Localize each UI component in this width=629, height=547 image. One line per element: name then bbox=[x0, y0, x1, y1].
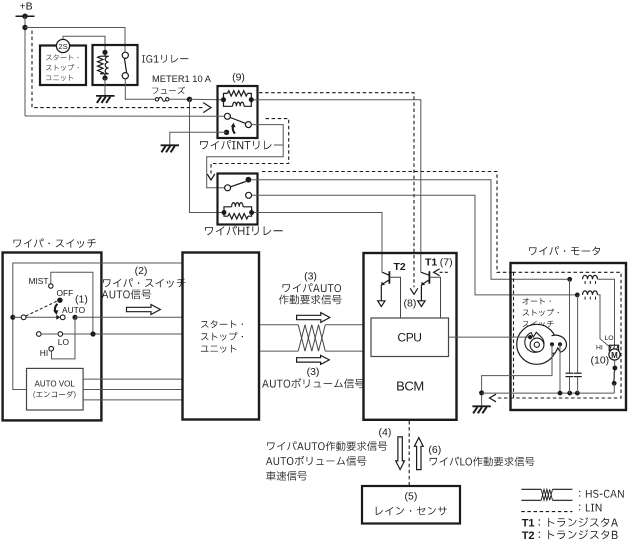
wire +B vertical feed bbox=[24, 16, 26, 116]
motor M body bbox=[609, 349, 620, 360]
relay IG1 coil connects bbox=[104, 52, 106, 56]
relay IG1 box bbox=[93, 45, 138, 85]
switch lever arrow bbox=[55, 304, 57, 312]
start-stop unit (upper) box bbox=[40, 46, 86, 86]
relay INT NC terminal bbox=[224, 130, 229, 135]
svg-text:T1: T1 bbox=[425, 257, 437, 269]
wire 2S to IG1 coil bbox=[63, 36, 105, 50]
wire LO coil to motor bbox=[598, 279, 615, 345]
start-stop unit box bbox=[183, 253, 260, 420]
svg-text:LO: LO bbox=[605, 335, 614, 342]
relay INT coil left terminal bbox=[221, 97, 226, 102]
encoder label (encoder) bbox=[34, 391, 76, 399]
park switch arm bbox=[614, 370, 615, 381]
wire contact B down bbox=[559, 344, 561, 393]
relay HI coil resistor bbox=[228, 214, 248, 219]
transistor T1 bbox=[428, 271, 430, 284]
svg-text:MIST: MIST bbox=[29, 276, 49, 286]
wire T2 base to CPU bbox=[389, 277, 400, 318]
auto-stop cam plate bbox=[517, 324, 557, 364]
wire HS-CAN high bbox=[260, 324, 298, 326]
capacitor C1 bbox=[569, 279, 571, 373]
svg-text:(3): (3) bbox=[304, 271, 317, 283]
junction B (fuse out) bbox=[187, 97, 192, 102]
switch common contact bbox=[21, 315, 26, 320]
wire +B to IG1 switch bbox=[25, 28, 125, 53]
wire encoder output 1 bbox=[83, 378, 182, 380]
auto-stop switch label bbox=[523, 298, 551, 305]
motor M brushes bbox=[609, 345, 618, 350]
relay INT box bbox=[218, 86, 258, 138]
signal arrow (3) lower bbox=[297, 355, 330, 364]
cam inner plate bbox=[525, 332, 544, 352]
park switch contact bottom bbox=[612, 381, 617, 386]
junction A bbox=[22, 25, 27, 30]
relay INT coil connects bbox=[224, 93, 228, 99]
auto-stop cam lobe bbox=[551, 335, 566, 353]
dashed wire BCM to rain sensor bbox=[408, 421, 410, 486]
legend LIN text bbox=[579, 504, 601, 512]
arrowhead to INT relay bbox=[203, 103, 211, 113]
HS-CAN twisted pair symbol bbox=[298, 325, 325, 351]
junction rail cap2 bbox=[575, 391, 580, 396]
svg-text:(5): (5) bbox=[405, 491, 418, 503]
wire MIST to LO rail bbox=[51, 272, 93, 334]
junction AUTO out bbox=[72, 315, 77, 320]
wire IG1 coil to ground bbox=[104, 78, 106, 96]
switch OFF contact bbox=[57, 298, 62, 303]
legend LIN dashed bbox=[521, 511, 572, 513]
wire HS-CAN low bbox=[260, 350, 298, 352]
park switch contact top bbox=[613, 366, 618, 371]
svg-text:T2: T2 bbox=[522, 530, 535, 542]
ground INT bbox=[161, 144, 179, 146]
relay HI contact arm bbox=[231, 182, 246, 187]
svg-text:(1): (1) bbox=[75, 294, 88, 306]
wiper motor box bbox=[511, 263, 627, 410]
connector circle 2S bbox=[56, 39, 69, 52]
junction LO coil bbox=[567, 277, 572, 282]
motor noise coil LO bbox=[583, 275, 598, 279]
wire CPU to auto-stop switch bbox=[449, 336, 529, 338]
legend HS-CAN text bbox=[579, 490, 624, 498]
relay HI label bbox=[205, 226, 283, 236]
relay IG1 contact bottom bbox=[122, 73, 128, 79]
ground wiper motor bbox=[472, 405, 490, 407]
svg-text:LO: LO bbox=[58, 337, 70, 347]
signal arrow (3) upper bbox=[297, 313, 330, 323]
wire INT NC to ground bbox=[170, 132, 227, 145]
wiper switch title bbox=[14, 239, 96, 248]
junction +B bbox=[22, 14, 27, 19]
svg-text:(9): (9) bbox=[232, 72, 245, 84]
BCM box bbox=[364, 253, 457, 420]
relay INT coil right terminal bbox=[249, 97, 254, 102]
T1 emitter open arrow bbox=[418, 301, 425, 307]
svg-text:HI: HI bbox=[596, 345, 603, 352]
wire LO contacts bbox=[41, 333, 58, 335]
wire encoder output 2 bbox=[83, 389, 182, 391]
relay HI coil right terminal bbox=[249, 210, 254, 215]
T2 emitter open arrow bbox=[378, 301, 385, 307]
relay IG1 coil inductor bbox=[105, 56, 108, 73]
start-stop unit (upper) label bbox=[46, 54, 79, 60]
junction motor ground bbox=[479, 390, 484, 395]
svg-text:(8): (8) bbox=[404, 298, 417, 310]
svg-text:M: M bbox=[611, 351, 618, 360]
start-stop unit label bbox=[201, 320, 243, 328]
wire encoder output 3 bbox=[83, 399, 182, 401]
relay HI coil connects bbox=[224, 207, 232, 213]
wire junction down to HI coil bbox=[190, 99, 223, 212]
wire IG1 switch to fuse bbox=[125, 79, 155, 100]
switch HI contact bbox=[49, 346, 54, 351]
svg-text:OFF: OFF bbox=[57, 288, 74, 298]
switch AUTO contact bbox=[60, 315, 65, 320]
label signals to rain sensor bbox=[267, 441, 387, 451]
switch LO contact b bbox=[58, 332, 63, 337]
cam center bbox=[534, 342, 539, 347]
label wiper switch AUTO signal bbox=[103, 278, 185, 287]
switch OFF position (1) dashed arm bbox=[26, 301, 58, 316]
dashed arrow (7) at T1 bbox=[439, 271, 448, 273]
dashed wire relays to wiper motor (LIN path) bbox=[262, 172, 513, 273]
wire HI coil to transistor T2 bbox=[254, 213, 382, 273]
dashed wire INT relay to BCM (signal 8) bbox=[259, 93, 414, 288]
svg-text:(10): (10) bbox=[591, 355, 610, 367]
relay IG1 coil resistor bbox=[98, 56, 103, 74]
svg-text:2S: 2S bbox=[58, 42, 67, 51]
label AUTO volume signal bbox=[262, 378, 364, 388]
transistor T2 bbox=[388, 271, 390, 284]
arrowhead dashed to motor ground bbox=[490, 394, 497, 402]
relay HI box bbox=[218, 174, 258, 225]
wire AUTO output bbox=[75, 316, 183, 318]
relay HI common contact bbox=[225, 185, 231, 191]
relay HI open contact bbox=[246, 192, 252, 198]
svg-text:(3): (3) bbox=[307, 366, 320, 378]
wire AUTO to HI contact bbox=[52, 317, 76, 359]
signal arrow (6) up bbox=[414, 438, 423, 470]
relay INT moving-direction arrow bbox=[233, 126, 235, 134]
relay IG1 contact top bbox=[122, 52, 128, 58]
svg-text:(6): (6) bbox=[428, 444, 441, 456]
encoder AUTO VOL box bbox=[27, 368, 84, 410]
auto-stop contact from CPU bbox=[528, 335, 532, 339]
rain sensor box bbox=[362, 486, 460, 524]
wiper motor title bbox=[529, 246, 600, 255]
auto-stop contact A bbox=[550, 342, 554, 346]
wire common to AUTO bbox=[26, 316, 57, 318]
relay INT coil resistor bbox=[228, 91, 248, 96]
label wiper AUTO request bbox=[283, 283, 342, 292]
arrowhead at AUTO contact bbox=[56, 315, 60, 320]
signal arrow (4) down bbox=[396, 437, 405, 470]
relay IG1 label bbox=[142, 55, 188, 63]
wire HI NO to wiper motor LO coil bbox=[251, 180, 567, 280]
junction rail B bbox=[558, 391, 563, 396]
rain sensor label bbox=[376, 507, 447, 516]
switch MIST contact bbox=[49, 284, 53, 288]
signal arrow (2) bbox=[127, 305, 161, 315]
wire park switch to rail bbox=[613, 383, 615, 393]
junction HI coil bbox=[575, 293, 580, 298]
label wiper LO request bbox=[430, 457, 535, 467]
wire HI coil to motor bbox=[598, 295, 611, 348]
CPU box bbox=[371, 318, 449, 357]
auto-stop contact B bbox=[558, 342, 562, 346]
motor noise coil HI bbox=[583, 291, 598, 295]
dashed boundary inside motor bbox=[497, 272, 622, 398]
svg-text:+B: +B bbox=[20, 0, 33, 12]
wire LO output bbox=[63, 333, 183, 335]
arrowhead (8) into BCM bbox=[410, 288, 418, 294]
wire HI open to wiper motor HI coil bbox=[252, 195, 576, 295]
junction switch common bbox=[10, 315, 15, 320]
junction LO-MIST bbox=[90, 331, 95, 336]
wire fuse to junction bbox=[169, 98, 190, 100]
relay INT label bbox=[200, 140, 283, 149]
dashed wire INT to HI relay bbox=[211, 119, 289, 174]
wire contact A to ground rail bbox=[482, 344, 552, 406]
legend HS-CAN symbol bbox=[521, 488, 541, 490]
wire motor to park switch bbox=[614, 360, 616, 366]
svg-text:(2): (2) bbox=[135, 265, 148, 277]
cam ring bbox=[530, 338, 544, 352]
relay INT common contact bbox=[224, 113, 230, 119]
svg-text:T2: T2 bbox=[394, 261, 406, 273]
relay HI coil left terminal bbox=[222, 210, 227, 215]
wire junction to INT coil bbox=[190, 98, 222, 100]
svg-text:(7): (7) bbox=[440, 257, 453, 269]
relay INT NO contact bbox=[245, 122, 251, 128]
relay IG1 contact arm bbox=[124, 58, 126, 72]
capacitor C2 bbox=[577, 295, 579, 373]
wire common stub bbox=[13, 316, 22, 318]
dashed wire start-stop to INT relay (signal 9 drive) bbox=[32, 31, 203, 108]
relay IG1 coil bottom terminal bbox=[102, 75, 107, 80]
wire INT coil to transistor T1 bbox=[254, 100, 421, 273]
svg-text:CPU: CPU bbox=[397, 331, 421, 345]
relay INT contact arm bbox=[230, 118, 245, 124]
relay HI NO terminal bbox=[246, 177, 252, 183]
wire T1 base to CPU bbox=[429, 277, 440, 318]
ground IG1 bbox=[96, 95, 114, 97]
svg-text:AUTO VOL: AUTO VOL bbox=[35, 379, 76, 388]
fuse F1 symbol bbox=[159, 97, 167, 101]
battery terminal tick bbox=[16, 15, 35, 17]
fuse label bbox=[152, 87, 185, 94]
wire INT NO to HI common bbox=[207, 125, 284, 188]
arrowhead to HI relay bbox=[207, 174, 215, 180]
switch LO contact a bbox=[37, 332, 42, 337]
svg-text:BCM: BCM bbox=[396, 379, 424, 394]
relay HI coil inductor bbox=[232, 203, 243, 207]
svg-text:AUTO: AUTO bbox=[62, 305, 86, 315]
junction rail cap1 bbox=[567, 391, 572, 396]
wire +B to INT common bbox=[25, 115, 224, 117]
wiper switch box bbox=[3, 253, 102, 421]
wire switch common feed rail bbox=[13, 263, 183, 390]
svg-text:(4): (4) bbox=[379, 427, 392, 439]
motor ground rail bbox=[482, 392, 615, 394]
svg-text:HI: HI bbox=[40, 348, 48, 358]
relay INT coil inductor bbox=[233, 102, 244, 106]
svg-text:T1: T1 bbox=[522, 518, 535, 530]
relay IG1 coil top terminal bbox=[102, 50, 107, 55]
svg-text:METER1 10 A: METER1 10 A bbox=[152, 74, 212, 84]
